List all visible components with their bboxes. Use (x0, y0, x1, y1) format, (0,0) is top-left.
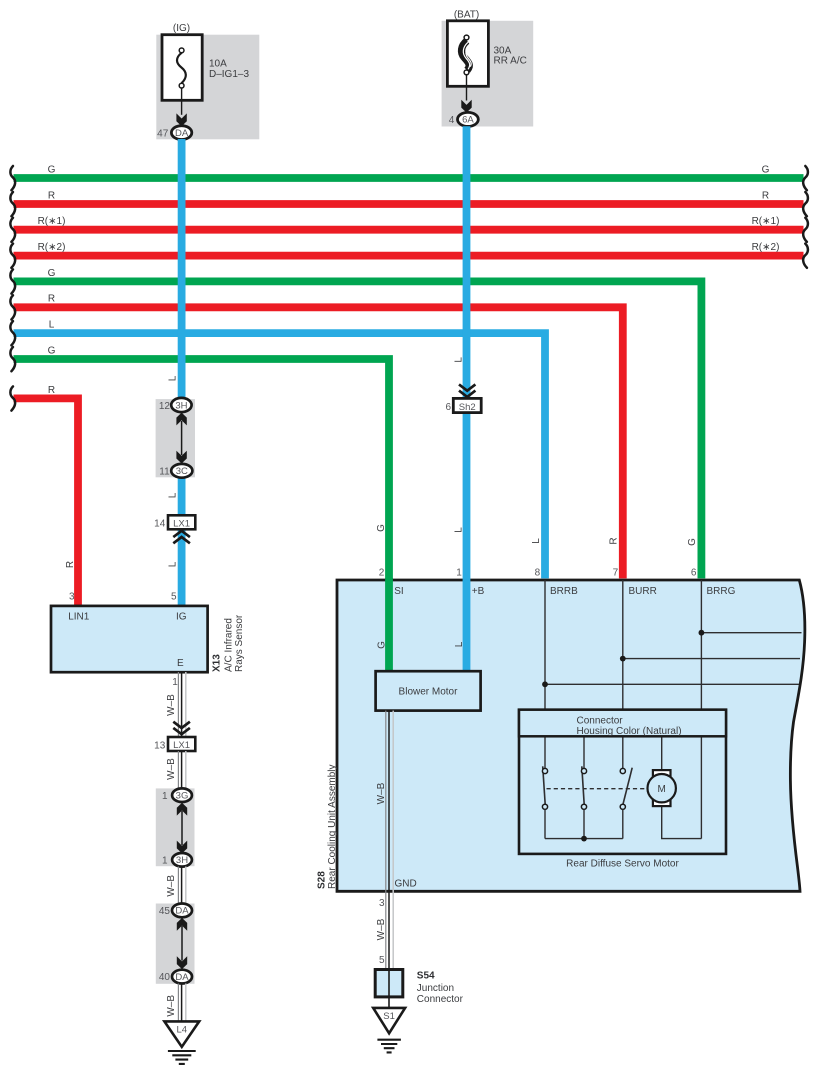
wire thin BRRB horizontal to edge (545, 683, 799, 685)
wire through S54 to S1 (388, 970, 390, 1009)
fuse F1 arrow (176, 113, 186, 126)
svg-text:G: G (48, 345, 56, 356)
svg-text:L: L (454, 641, 465, 647)
node squiggle left G2 (10, 269, 15, 293)
svg-text:11: 11 (159, 467, 170, 478)
svg-text:(BAT): (BAT) (454, 10, 479, 21)
connector 45 DA (172, 904, 192, 918)
wire bus R(*2) row4 (14, 252, 804, 260)
svg-text:Rear Cooling Unit Assembly: Rear Cooling Unit Assembly (327, 765, 338, 890)
svg-text:40: 40 (159, 972, 171, 983)
connector 1 3G (172, 788, 192, 802)
wire thin BURR inside (622, 580, 624, 710)
ground connector L4 (164, 1021, 199, 1046)
switch 2 contacts (581, 768, 586, 773)
connector 1 3H lower (172, 853, 192, 867)
svg-text:R(∗1): R(∗1) (38, 216, 66, 227)
wire bus R(*1) row3 (14, 226, 804, 234)
fuse F2 30A RR A/C box (447, 21, 488, 87)
switch 1 upper lead (544, 736, 546, 768)
svg-text:Junction: Junction (417, 983, 454, 994)
svg-text:IG: IG (176, 611, 187, 622)
svg-text:4: 4 (449, 115, 455, 126)
svg-text:G: G (48, 164, 56, 175)
connector 4 6A (458, 112, 479, 126)
shield chevron below LX1 (173, 531, 190, 544)
wire W-B DA to L4 (177, 984, 179, 1023)
svg-text:RR A/C: RR A/C (494, 55, 527, 66)
svg-text:W–B: W–B (376, 918, 387, 940)
svg-text:W–B: W–B (376, 782, 387, 804)
svg-text:L: L (454, 527, 465, 533)
svg-text:Sh2: Sh2 (459, 402, 476, 413)
svg-text:13: 13 (154, 740, 166, 751)
wire bus R row2 (14, 200, 804, 208)
switch 3 contacts (620, 768, 625, 773)
svg-text:W–B: W–B (166, 875, 177, 897)
svg-text:Rear Diffuse Servo Motor: Rear Diffuse Servo Motor (566, 859, 679, 870)
junction box 13 LX1 (168, 737, 195, 751)
fuse F1 10A D-IG1-3 box (162, 35, 202, 101)
svg-text:Connector: Connector (577, 716, 624, 727)
node squiggle left R2 (10, 218, 15, 242)
svg-text:1: 1 (162, 791, 168, 802)
wire bus L row7 to BRRB (14, 333, 546, 578)
shield chevron above Sh2 (459, 384, 475, 397)
svg-text:L: L (531, 538, 542, 544)
svg-text:Connector: Connector (417, 994, 464, 1005)
arrow up to 3H (176, 413, 186, 426)
node junction dot BRRB (542, 681, 548, 687)
svg-text:DA: DA (175, 972, 189, 983)
svg-text:3: 3 (379, 898, 385, 909)
wire W-B X13 to LX1 (177, 672, 179, 737)
svg-text:+B: +B (472, 586, 485, 597)
BRRG inner vertical (700, 736, 702, 838)
connector 47 DA (171, 126, 191, 140)
svg-text:1: 1 (162, 855, 168, 866)
svg-text:R: R (762, 190, 769, 201)
switch 2 upper lead (583, 736, 585, 768)
svg-text:LX1: LX1 (173, 740, 190, 751)
svg-text:M: M (658, 784, 666, 795)
node squiggle right R1 (803, 192, 808, 216)
svg-text:W–B: W–B (166, 694, 177, 716)
connector 12 3H (171, 398, 191, 412)
svg-text:3: 3 (69, 592, 75, 603)
svg-text:10A: 10A (209, 59, 227, 70)
svg-text:3H: 3H (176, 855, 188, 866)
junction panel DA/DA (156, 904, 195, 984)
wire L +B feed from fuse (463, 126, 471, 673)
svg-text:W–B: W–B (166, 995, 177, 1017)
svg-text:G: G (687, 538, 698, 546)
motor M brushes (653, 770, 671, 776)
svg-text:BRRB: BRRB (550, 586, 578, 597)
fuse F2 gray panel (442, 21, 534, 127)
svg-text:BRRG: BRRG (707, 586, 736, 597)
svg-text:12: 12 (159, 401, 171, 412)
wire thin BRRG inside (700, 580, 702, 710)
svg-text:3C: 3C (176, 466, 188, 477)
blower motor box (376, 671, 481, 710)
fuse F2 pin lead (466, 75, 468, 101)
svg-text:X13: X13 (212, 654, 223, 672)
svg-text:5: 5 (379, 955, 385, 966)
svg-text:6: 6 (445, 402, 451, 413)
node squiggle right R2 (803, 218, 808, 242)
connector header box (519, 710, 726, 737)
node junction dot BURR (620, 656, 626, 662)
junction panel 3H/3C (156, 399, 195, 477)
motor M circle (648, 774, 676, 802)
svg-text:8: 8 (535, 568, 541, 579)
switch 2 blade (582, 766, 584, 804)
svg-text:Blower Motor: Blower Motor (399, 687, 459, 698)
arrow link line (181, 926, 183, 961)
junction panel 3G/3H (156, 788, 195, 866)
svg-text:6A: 6A (462, 115, 474, 126)
svg-text:LIN1: LIN1 (68, 611, 90, 622)
wire bus R row6 to BURR (14, 307, 623, 578)
svg-text:R: R (48, 294, 55, 305)
svg-text:Rays Sensor: Rays Sensor (234, 614, 245, 672)
switch 1 blade (543, 766, 546, 804)
arrow down to 3H (177, 841, 187, 854)
svg-text:1: 1 (456, 568, 462, 579)
S28 Rear Cooling Unit Assembly box (337, 580, 805, 891)
junction connector S54 box (375, 970, 403, 997)
wire bus G row5 to BRRG (14, 281, 702, 578)
svg-text:LX1: LX1 (173, 519, 190, 530)
svg-text:R: R (65, 561, 76, 568)
wire bus G row1 (14, 174, 804, 182)
wire thin BURR horizontal to edge (623, 658, 800, 660)
svg-text:GND: GND (395, 879, 417, 890)
node squiggle left R5 (10, 386, 15, 410)
fuse F2 arrow (461, 100, 471, 113)
svg-text:45: 45 (159, 906, 171, 917)
svg-text:A/C Infrared: A/C Infrared (224, 618, 235, 672)
junction box 14 LX1 (168, 515, 195, 529)
node squiggle left G3 (10, 347, 15, 371)
svg-text:S1: S1 (383, 1011, 395, 1022)
svg-text:BURR: BURR (629, 586, 657, 597)
fuse F2 fusible link symbol (462, 41, 470, 70)
svg-text:G: G (762, 164, 770, 175)
svg-text:7: 7 (613, 568, 619, 579)
svg-text:5: 5 (171, 592, 177, 603)
ground symbol S1 (377, 1040, 401, 1053)
connector box outer (519, 710, 726, 854)
shield chevron above LX1 13 (173, 722, 190, 735)
svg-text:R(∗2): R(∗2) (38, 242, 66, 253)
wire L IG feed vertical (178, 139, 186, 400)
connector 11 3C (171, 464, 192, 478)
wire thin BRRB inside (544, 580, 546, 710)
wire W-B LX1 to 3G (177, 751, 179, 789)
switch 1 contacts (542, 768, 547, 773)
svg-text:2: 2 (379, 568, 385, 579)
svg-text:R: R (48, 190, 55, 201)
switch 3 blade (623, 768, 632, 805)
fuse F1 gray panel (156, 35, 259, 140)
arrow link line (181, 421, 183, 455)
svg-text:S28: S28 (317, 871, 328, 889)
node squiggle left R3 (10, 244, 15, 268)
connector 40 DA (172, 970, 192, 984)
svg-text:Housing Color (Natural): Housing Color (Natural) (577, 726, 682, 737)
dashed linkage line (547, 788, 648, 790)
switch lower leads (544, 809, 546, 838)
svg-text:L: L (168, 561, 179, 567)
wire W-B 3H to DA (177, 867, 179, 905)
bottom bus line switches (545, 838, 623, 840)
fuse F1 pin lead (181, 88, 183, 115)
svg-text:L: L (453, 357, 464, 363)
svg-text:1: 1 (172, 677, 178, 688)
svg-text:G: G (376, 524, 387, 532)
svg-text:D–IG1–3: D–IG1–3 (209, 69, 249, 80)
svg-text:L: L (168, 492, 179, 498)
arrow down to 3C (176, 451, 186, 464)
svg-text:G: G (376, 641, 387, 649)
node squiggle right G1 (803, 166, 808, 190)
svg-text:R: R (609, 537, 620, 544)
svg-text:DA: DA (175, 128, 189, 139)
motor upper lead (661, 736, 663, 770)
arrow up to 3G (177, 803, 187, 816)
svg-text:14: 14 (154, 519, 166, 530)
X13 A/C Infrared Rays Sensor box (51, 606, 208, 672)
arrow up to DA45 (177, 918, 187, 931)
svg-text:47: 47 (157, 128, 169, 139)
wire bus G row8 to SI (14, 359, 390, 673)
wire thin BRRG horizontal to edge (701, 632, 801, 634)
ground symbol L4 (168, 1051, 196, 1064)
svg-text:3H: 3H (175, 400, 187, 411)
node junction dot BRRG (699, 630, 705, 636)
svg-text:DA: DA (175, 906, 189, 917)
svg-text:R(∗2): R(∗2) (752, 242, 780, 253)
node squiggle left R4 (10, 295, 15, 319)
ground connector S1 (373, 1008, 405, 1033)
svg-text:L: L (168, 375, 179, 381)
svg-text:L4: L4 (177, 1024, 188, 1035)
svg-text:6: 6 (691, 568, 697, 579)
arrow down to DA40 (177, 956, 187, 969)
svg-text:SI: SI (394, 586, 403, 597)
motor lower lead (662, 806, 702, 839)
node squiggle left L1 (10, 321, 15, 345)
svg-text:R: R (48, 385, 55, 396)
svg-text:S54: S54 (417, 971, 435, 982)
svg-text:E: E (177, 658, 184, 669)
node squiggle left R1 (10, 192, 15, 216)
shield box Sh2 (453, 398, 481, 412)
svg-text:R(∗1): R(∗1) (752, 216, 780, 227)
svg-text:3G: 3G (176, 791, 189, 802)
svg-text:W–B: W–B (166, 758, 177, 780)
node squiggle left G1 (10, 166, 15, 190)
arrow link line (181, 811, 183, 845)
node junction dot bottom (581, 836, 587, 842)
svg-text:(IG): (IG) (173, 23, 190, 34)
switch 3 upper lead (622, 736, 624, 768)
node squiggle right R3 (803, 244, 808, 268)
svg-text:G: G (48, 268, 56, 279)
fuse F1 symbol (177, 53, 186, 83)
wire bus R row9 to LIN1 (14, 398, 79, 606)
wire G SI vertical into blower (385, 578, 393, 673)
wire W-B from blower to GND (385, 711, 387, 970)
svg-text:L: L (49, 320, 55, 331)
